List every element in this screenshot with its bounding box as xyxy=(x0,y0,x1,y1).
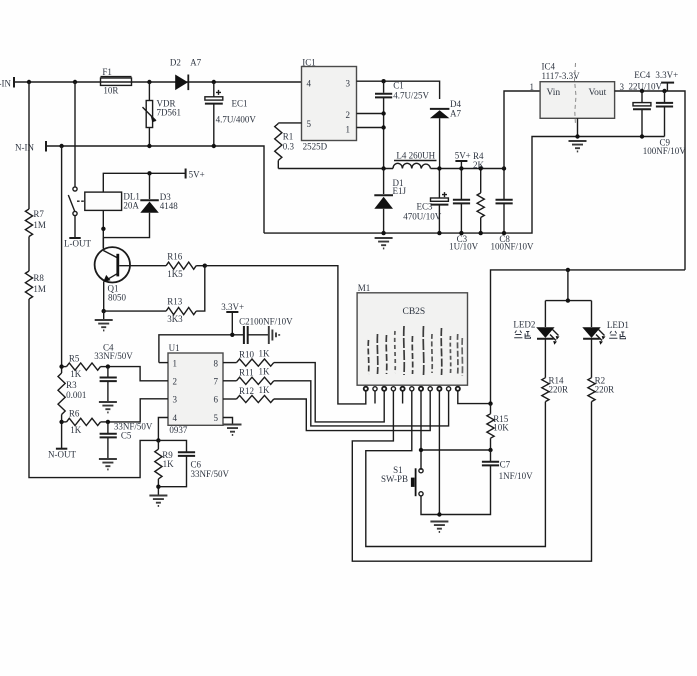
svg-text:7D561: 7D561 xyxy=(157,108,182,118)
svg-text:EC3: EC3 xyxy=(417,202,434,212)
junction gnd rail at C8 xyxy=(502,231,506,235)
dashed scratch line through IC4 xyxy=(575,63,577,125)
M1 pin 7 xyxy=(419,387,423,391)
wire N line down to N-OUT xyxy=(61,146,63,449)
junction 3.3V C2 node xyxy=(230,333,234,337)
transistor Q1 8050 xyxy=(95,238,167,312)
junction IC4 gnd xyxy=(575,134,579,138)
M1 pin 2 xyxy=(373,387,377,391)
ground at S1 xyxy=(430,522,448,532)
node 3.3V+ terminal above C2 xyxy=(221,302,244,335)
junction rail at EC3 xyxy=(437,166,441,170)
diode D1 E1J xyxy=(374,169,406,234)
junction C1 chain pin2 xyxy=(381,111,385,115)
svg-text:CB2S: CB2S xyxy=(403,307,426,317)
svg-text:33NF/50V: 33NF/50V xyxy=(191,469,230,479)
junction Vout at EC4 xyxy=(640,89,644,93)
label LED2 chinese xyxy=(514,331,530,339)
ground at R9/C6 xyxy=(149,496,167,506)
junction R16 right node xyxy=(203,264,207,268)
node N-IN terminal xyxy=(15,141,46,153)
svg-text:SW-PB: SW-PB xyxy=(381,474,408,484)
svg-text:33NF/50V: 33NF/50V xyxy=(114,421,153,431)
wire U1 pin1 stub xyxy=(159,362,168,364)
wire primary ground rail xyxy=(264,137,665,234)
junction S1 top node xyxy=(419,448,423,452)
junction on top rail at EC1 xyxy=(212,80,216,84)
wire N-IN rail xyxy=(46,146,264,233)
svg-text:R6: R6 xyxy=(69,408,80,418)
resistor R12 1K xyxy=(223,385,430,431)
junction R15/C7 node xyxy=(488,448,492,452)
svg-text:10R: 10R xyxy=(103,86,118,96)
wire IC1 pin5 stub xyxy=(278,122,301,124)
svg-text:1: 1 xyxy=(173,358,178,368)
capacitor C6 33NF/50V xyxy=(158,440,229,486)
junction R9 bottom node xyxy=(156,485,160,489)
svg-text:LED1: LED1 xyxy=(607,320,629,330)
svg-text:EC1: EC1 xyxy=(232,99,248,109)
relay switch contact to L-OUT xyxy=(64,82,91,249)
svg-text:C5: C5 xyxy=(121,431,132,441)
junction S1 ground node xyxy=(437,512,441,516)
resistor R2 220R xyxy=(588,339,614,402)
M1 pin 5 xyxy=(401,387,405,391)
svg-text:1K: 1K xyxy=(259,367,271,377)
ground at C5 xyxy=(99,459,117,469)
junction rail at C8 xyxy=(502,166,506,170)
wire U1 pin4 stub xyxy=(158,418,168,441)
svg-text:3K3: 3K3 xyxy=(167,314,183,324)
svg-text:5V+: 5V+ xyxy=(455,151,471,161)
svg-text:3: 3 xyxy=(173,395,178,405)
junction U1 pin4 node xyxy=(156,438,160,442)
svg-text:R13: R13 xyxy=(167,297,183,307)
wire M1 pin11 to 3.3V xyxy=(458,391,491,404)
LED LED2 blue xyxy=(513,320,559,345)
svg-text:2: 2 xyxy=(346,110,351,120)
resistor R13 3K3 xyxy=(104,266,205,324)
junction LED rail xyxy=(566,268,570,272)
node 5V+ terminal mid xyxy=(455,151,471,169)
capacitor EC3 470U/10V xyxy=(403,169,448,234)
junction relay bottom node xyxy=(101,227,105,231)
wire M1 pin9 to ground node xyxy=(438,391,440,515)
svg-text:22U/10V: 22U/10V xyxy=(629,82,663,92)
svg-text:R10: R10 xyxy=(239,350,255,360)
switch S1 SW-PB xyxy=(381,465,439,515)
wire U1 pin2 route to R5/C4 node xyxy=(108,367,168,381)
resistor R5 1K xyxy=(62,354,108,380)
svg-text:M1: M1 xyxy=(358,283,371,293)
ground at U1 pin5 xyxy=(224,425,242,435)
svg-text:Vout: Vout xyxy=(589,88,607,98)
wire M1 pin5 stub xyxy=(402,391,404,404)
resistor R16 1K5 xyxy=(166,252,205,279)
wire R16 node to M1 pin1 xyxy=(205,266,366,404)
svg-text:1M: 1M xyxy=(33,220,46,230)
junction R6/C5 node xyxy=(106,420,110,424)
svg-text:R12: R12 xyxy=(239,386,254,396)
resistor R9 1K xyxy=(155,440,174,495)
wire M1 pin4 loop to R2 xyxy=(352,391,591,561)
junction N-IN at EC1 bottom xyxy=(212,144,216,148)
svg-text:R8: R8 xyxy=(33,273,44,283)
svg-text:8050: 8050 xyxy=(108,293,127,303)
svg-text:C7: C7 xyxy=(500,459,511,469)
svg-text:100NF/10V: 100NF/10V xyxy=(491,242,535,252)
relay coil DL1 20A xyxy=(85,173,186,248)
junction gnd rail at EC3 xyxy=(437,231,441,235)
M1 pin 4 xyxy=(391,387,395,391)
capacitor C7 1NF/10V xyxy=(439,450,533,515)
resistor R3 0.001 xyxy=(58,373,86,415)
capacitor C8 100NF/10V xyxy=(491,169,535,252)
capacitor C9 100NF/10V xyxy=(643,91,687,156)
svg-text:1NF/10V: 1NF/10V xyxy=(499,471,534,481)
svg-text:0.3: 0.3 xyxy=(283,141,295,151)
M1 pin 10 xyxy=(447,387,451,391)
junction R15 top xyxy=(488,401,492,405)
wire M1 pin6 loop to R14 xyxy=(366,391,546,547)
junction LED branch split xyxy=(566,298,570,302)
junction Q1 emitter ground node xyxy=(102,309,106,313)
wire 3.3V node to U1 pin1 xyxy=(159,335,244,363)
node N-OUT terminal xyxy=(48,449,76,460)
svg-text:470U/10V: 470U/10V xyxy=(403,212,442,222)
ground at Q1 emitter xyxy=(95,311,113,330)
inductor L4 260UH xyxy=(393,151,437,169)
resistor R10 1K xyxy=(223,349,384,422)
junction on top rail at VDR xyxy=(147,80,151,84)
svg-text:20A: 20A xyxy=(123,201,139,211)
svg-text:C2100NF/10V: C2100NF/10V xyxy=(239,316,293,326)
svg-text:1K5: 1K5 xyxy=(167,269,183,279)
LED LED1 red xyxy=(582,320,629,345)
module M1 CB2S xyxy=(357,283,467,385)
wire M1 pin2 stub xyxy=(374,391,376,404)
svg-text:A7: A7 xyxy=(450,108,461,118)
svg-text:1: 1 xyxy=(346,125,351,135)
junction gnd rail at C3 xyxy=(459,231,463,235)
resistor R14 220R xyxy=(542,339,568,402)
varistor VDR 7D561 xyxy=(143,82,182,146)
capacitor C2 100NF/10V xyxy=(239,316,293,344)
diode D3 4148 xyxy=(103,173,178,237)
svg-text:R3: R3 xyxy=(66,380,77,390)
junction N-IN at x61.6 xyxy=(59,144,63,148)
svg-text:0937: 0937 xyxy=(169,425,188,435)
junction rail at R4 xyxy=(479,166,483,170)
svg-text:10K: 10K xyxy=(493,423,509,433)
svg-text:3: 3 xyxy=(346,79,351,89)
capacitor C3 1U/10V xyxy=(449,169,479,252)
svg-text:8: 8 xyxy=(214,358,219,368)
svg-text:1K: 1K xyxy=(259,349,271,359)
M1 pin 1 xyxy=(364,387,368,391)
svg-text:4.7U/400V: 4.7U/400V xyxy=(216,115,257,125)
svg-text:L4 260UH: L4 260UH xyxy=(396,151,435,161)
svg-text:1K: 1K xyxy=(70,369,82,379)
junction C1 top xyxy=(381,79,385,83)
svg-text:R1: R1 xyxy=(283,132,294,142)
junction rail at C3 xyxy=(459,166,463,170)
svg-text:5: 5 xyxy=(307,119,312,129)
svg-text:D2: D2 xyxy=(170,57,181,67)
wire IC4 Vout rail xyxy=(615,91,685,270)
svg-text:100NF/10V: 100NF/10V xyxy=(643,146,687,156)
svg-text:1: 1 xyxy=(530,82,535,92)
svg-text:3.3V+: 3.3V+ xyxy=(655,70,678,80)
node 3.3V+ terminal right xyxy=(655,70,678,91)
wire IC1 pin2 stub xyxy=(357,113,384,115)
resistor R1 0.3 xyxy=(275,123,295,169)
svg-text:1K: 1K xyxy=(163,459,175,469)
svg-text:220R: 220R xyxy=(595,385,615,395)
svg-text:7: 7 xyxy=(214,377,219,387)
ground at IC4 xyxy=(569,141,587,151)
junction on top rail at relay-switch branch xyxy=(73,80,77,84)
svg-text:220R: 220R xyxy=(549,385,569,395)
junction gnd rail at R4 xyxy=(479,231,483,235)
svg-text:2525D: 2525D xyxy=(303,142,328,152)
junction EC4 bottom xyxy=(640,134,644,138)
svg-text:4148: 4148 xyxy=(160,201,179,211)
wire IC1 pin1 stub xyxy=(357,127,384,129)
wire L-IN top rail xyxy=(14,81,302,83)
IC 0937 U1 xyxy=(168,343,223,435)
resistor R7 1M xyxy=(25,82,46,237)
wire M1 pin7 to S1 node xyxy=(420,391,422,470)
label LED1 chinese xyxy=(609,331,625,339)
M1 pin 3 xyxy=(382,387,386,391)
svg-text:4: 4 xyxy=(173,413,178,423)
svg-text:R7: R7 xyxy=(33,209,44,219)
node 5V+ terminal left xyxy=(186,169,205,180)
resistor R4 2K xyxy=(473,151,485,233)
svg-text:1K: 1K xyxy=(259,385,271,395)
svg-text:5V+: 5V+ xyxy=(189,170,205,180)
ground at C4 xyxy=(99,402,117,412)
junction R5/C4 node xyxy=(106,364,110,368)
svg-text:F1: F1 xyxy=(102,67,112,77)
svg-text:33NF/50V: 33NF/50V xyxy=(94,351,133,361)
svg-text:E1J: E1J xyxy=(393,186,407,196)
wire U1 pin3 route to R6/C5 node xyxy=(108,399,168,422)
M1 pin 6 xyxy=(410,387,414,391)
junction 5V rail at D3 xyxy=(147,171,151,175)
svg-text:1K: 1K xyxy=(70,425,82,435)
junction C1 chain pin1 xyxy=(381,125,385,129)
capacitor EC4 22U/10V xyxy=(629,70,663,136)
node L-IN terminal xyxy=(0,77,14,89)
junction R6/R3 node xyxy=(59,420,63,424)
svg-text:Vin: Vin xyxy=(547,88,561,98)
svg-text:1U/10V: 1U/10V xyxy=(449,242,479,252)
resistor R8 1M xyxy=(25,237,158,478)
svg-text:R11: R11 xyxy=(239,368,254,378)
svg-text:0.001: 0.001 xyxy=(66,390,86,400)
wire U1 pin5 to ground xyxy=(223,418,233,425)
svg-text:4: 4 xyxy=(307,79,312,89)
IC 1117-3.3V IC4 xyxy=(530,61,625,136)
IC 2525D IC1 xyxy=(302,57,357,151)
svg-text:5: 5 xyxy=(214,413,219,423)
diode D4 A7 xyxy=(430,99,462,169)
M1 pin 11 xyxy=(456,387,460,391)
junction R5/R3 node xyxy=(59,364,63,368)
wire LED branch xyxy=(545,270,591,327)
svg-text:A7: A7 xyxy=(190,57,201,67)
svg-text:N-IN: N-IN xyxy=(15,143,34,153)
svg-text:LED2: LED2 xyxy=(513,320,535,330)
wire 5V rail to IC4 Vin xyxy=(504,91,540,169)
M1 pin 9 xyxy=(437,387,441,391)
junction ground rail at D1 xyxy=(381,231,385,235)
svg-text:1M: 1M xyxy=(33,284,46,294)
svg-text:N-OUT: N-OUT xyxy=(48,450,76,460)
junction rail at L4 left xyxy=(381,166,385,170)
fuse F1 xyxy=(101,67,132,96)
svg-text:4.7U/25V: 4.7U/25V xyxy=(393,91,429,101)
diode D2 A7 xyxy=(170,57,202,90)
wire IC1 pin3 stub to D4 xyxy=(357,81,440,99)
svg-text:R5: R5 xyxy=(69,354,80,364)
capacitor C5 33NF/50V xyxy=(100,421,153,458)
svg-text:L-IN: L-IN xyxy=(0,79,11,89)
M1 pin 8 xyxy=(428,387,432,391)
wire S1 node line xyxy=(421,449,491,451)
wire 3.3V LED rail xyxy=(491,270,686,404)
svg-text:2: 2 xyxy=(173,377,178,387)
capacitor EC1 4.7U/400V xyxy=(205,82,256,146)
svg-text:EC4: EC4 xyxy=(634,70,651,80)
svg-text:3.3V+: 3.3V+ xyxy=(221,302,244,312)
ground sideways at C2 xyxy=(269,326,279,344)
resistor R6 1K xyxy=(62,408,108,435)
junction N-IN at VDR bottom xyxy=(147,144,151,148)
M1 antenna traces xyxy=(368,326,462,376)
junction Vout at C9 xyxy=(662,89,666,93)
resistor R11 1K xyxy=(223,367,449,426)
svg-text:L-OUT: L-OUT xyxy=(64,239,91,249)
capacitor C4 33NF/50V xyxy=(94,342,133,401)
capacitor C1 4.7U/25V xyxy=(375,81,429,169)
svg-text:U1: U1 xyxy=(169,343,180,353)
svg-text:R16: R16 xyxy=(167,252,183,262)
wire SMPS output rail xyxy=(278,168,504,170)
junction on top rail at R7 branch xyxy=(27,80,31,84)
svg-text:C1: C1 xyxy=(393,81,404,91)
ground symbol main xyxy=(375,238,393,248)
svg-text:6: 6 xyxy=(214,395,219,405)
svg-text:IC4: IC4 xyxy=(542,61,556,71)
resistor R15 10K xyxy=(487,404,509,450)
